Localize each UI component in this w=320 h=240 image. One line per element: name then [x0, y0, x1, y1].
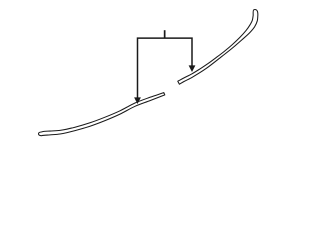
molding strip left (part outline): [39, 93, 165, 136]
leader arrowhead left: [135, 98, 141, 104]
molding strip right (part outline with hooked top end): [178, 10, 258, 85]
leader arrowhead right: [189, 66, 195, 72]
callout tick (index mark 1): [164, 30, 166, 38]
callout bracket (horizontal line with two drops): [138, 38, 193, 98]
